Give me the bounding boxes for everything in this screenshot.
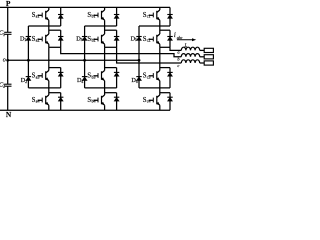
svg-text:3: 3 <box>81 37 83 42</box>
wire C1 to node o <box>7 34 9 84</box>
wire clamp branch leg c <box>138 26 140 88</box>
svg-text:abc: abc <box>177 36 183 40</box>
wire phase b jog from leg b <box>117 47 182 63</box>
svg-text:c2: c2 <box>147 38 151 43</box>
wire J4 to Sb4 with J5 tap <box>105 88 117 95</box>
junction dot o at DC link <box>6 59 9 62</box>
label phase b <box>177 56 180 61</box>
svg-text:c1: c1 <box>147 14 151 19</box>
transistor Sb2 <box>93 34 104 44</box>
neutral bus o wire <box>8 59 139 61</box>
wire Sa3 emitter to junction J4 <box>48 81 50 88</box>
wire Sc2 emitter to phase node <box>160 44 170 47</box>
transistor Sa3 <box>38 71 49 81</box>
diode antiparallel Sa4 <box>58 97 63 101</box>
label phase a <box>177 50 180 55</box>
diode antiparallel Sa1 <box>58 15 63 19</box>
svg-text:i: i <box>174 32 176 39</box>
wire leg c mid section <box>159 47 161 70</box>
wire diode branch row2 leg a <box>60 30 62 47</box>
transistor Sc3 <box>149 71 160 81</box>
node P label <box>6 0 11 8</box>
wire junction upper clamp row (J1a) <box>85 25 117 27</box>
diode clamp D1 <box>26 37 31 41</box>
label Sb1 <box>87 12 95 19</box>
label Sa3 <box>32 73 40 80</box>
wire Sb4 emitter to N bus <box>104 105 106 110</box>
transistor Sc2 <box>149 34 160 44</box>
current label i_abc <box>174 32 183 40</box>
svg-text:b1: b1 <box>91 14 95 19</box>
node N label <box>6 110 12 119</box>
label Sc3 <box>143 73 151 80</box>
svg-text:a3: a3 <box>36 75 40 80</box>
label Sb3 <box>87 73 95 80</box>
diode antiparallel Sc4 <box>167 97 172 101</box>
diode antiparallel Sb2 <box>114 37 119 41</box>
diode clamp D3 <box>82 37 87 41</box>
junction dot o-bus clamp c <box>138 59 141 62</box>
wire junction J3 to diode branch <box>105 67 117 69</box>
transistor Sa2 <box>38 34 49 44</box>
wire diode branch row3 leg b <box>116 68 118 88</box>
wire Sa4 emitter to N bus <box>48 105 50 110</box>
svg-text:N: N <box>6 110 12 119</box>
wire diode branch row3 leg c <box>169 68 171 88</box>
diode antiparallel Sc1 <box>167 15 172 19</box>
transistor Sa4 <box>38 95 49 105</box>
wire diode branch row2 leg c <box>169 30 171 47</box>
wire clamp branch leg a <box>27 26 29 88</box>
wire leg a mid section <box>48 47 50 70</box>
label Sc1 <box>143 12 151 19</box>
diode antiparallel Sb3 <box>114 72 119 76</box>
wire J4 to Sc4 with J5 tap <box>160 88 170 95</box>
label D4 <box>77 77 83 84</box>
wire phase c jog from leg c <box>170 47 181 50</box>
label Sa4 <box>32 97 40 104</box>
wire leg b mid section <box>104 47 106 70</box>
wire leg a collector stub Sa1 <box>48 7 50 10</box>
transistor Sa1 <box>38 10 49 20</box>
svg-text:2: 2 <box>25 79 27 84</box>
wire diode branch row1 leg b <box>116 7 118 26</box>
label Sa1 <box>32 12 40 19</box>
wire diode branch row3 leg a <box>60 68 62 88</box>
wire junction to Sc2 (J1b tap) <box>160 26 170 34</box>
wire Sb2 emitter to phase node <box>105 44 117 47</box>
svg-text:b3: b3 <box>91 75 95 80</box>
wire C2 to N bus <box>7 86 9 110</box>
transistor Sb3 <box>93 71 104 81</box>
diode antiparallel Sa2 <box>58 37 63 41</box>
wire Sc3 emitter to junction J4 <box>159 81 161 88</box>
junction dot o-bus clamp a <box>27 59 30 62</box>
diode clamp D6 <box>136 77 141 81</box>
grid terminal box bottom <box>204 61 213 65</box>
wire junction lower clamp row (J4) <box>139 87 170 89</box>
N bus (negative DC rail) <box>0 109 170 111</box>
svg-text:c4: c4 <box>147 99 151 104</box>
P bus (positive DC rail) <box>0 6 170 8</box>
svg-text:1: 1 <box>3 32 5 37</box>
diode clamp D4 <box>82 77 87 81</box>
transistor Sb4 <box>93 95 104 105</box>
svg-text:a2: a2 <box>36 38 40 43</box>
label Sc2 <box>143 36 151 43</box>
wire junction J3 to diode branch <box>160 67 170 69</box>
capacitor C1 <box>0 30 11 37</box>
wire diode branch row4 leg c <box>169 93 171 111</box>
grid terminal box top <box>204 48 213 52</box>
diode antiparallel Sc2 <box>167 37 172 41</box>
current arrow i_abc <box>177 38 196 41</box>
inductor phase c (top row) <box>181 47 204 50</box>
svg-text:c: c <box>177 63 179 68</box>
wire Sc1 emitter to junction <box>159 20 161 26</box>
label Sb4 <box>87 97 95 104</box>
wire clamp branch leg b <box>84 26 86 88</box>
label D5 <box>131 35 137 42</box>
wire diode branch row1 leg a <box>60 7 62 26</box>
wire diode branch row4 leg a <box>60 93 62 111</box>
wire junction upper clamp row (J1a) <box>28 25 60 27</box>
diode clamp D5 <box>136 37 141 41</box>
diode antiparallel Sb1 <box>114 15 119 19</box>
wire phase a jog from leg a <box>61 47 182 57</box>
label Sb2 <box>87 36 95 43</box>
node o label <box>3 58 6 64</box>
svg-text:1: 1 <box>24 37 26 42</box>
wire Sb1 emitter to junction <box>104 20 106 26</box>
diode antiparallel Sa3 <box>58 72 63 76</box>
diode antiparallel Sb4 <box>114 97 119 101</box>
svg-text:6: 6 <box>136 79 138 84</box>
diode clamp D2 <box>26 77 31 81</box>
wire Sa2 emitter to phase node <box>49 44 61 47</box>
svg-text:b2: b2 <box>91 38 95 43</box>
svg-text:c3: c3 <box>147 75 151 80</box>
svg-text:P: P <box>6 0 11 8</box>
svg-text:2: 2 <box>3 84 5 89</box>
transistor Sc4 <box>149 95 160 105</box>
wire diode branch row1 leg c <box>169 7 171 26</box>
wire junction lower clamp row (J4) <box>28 87 60 89</box>
grid terminal box middle <box>204 55 213 59</box>
svg-text:a1: a1 <box>36 14 40 19</box>
wire junction to Sb2 (J1b tap) <box>105 26 117 34</box>
wire Sb3 emitter to junction J4 <box>104 81 106 88</box>
wire leg b collector stub Sb1 <box>104 7 106 10</box>
wire junction upper clamp row (J1a) <box>139 25 170 27</box>
label L <box>184 44 188 49</box>
label D6 <box>131 77 137 84</box>
svg-text:5: 5 <box>135 37 137 42</box>
wire junction to Sa2 (J1b tap) <box>49 26 61 34</box>
wire diode branch row4 leg b <box>116 93 118 111</box>
junction dot o-bus clamp b <box>83 59 86 62</box>
wire junction lower clamp row (J4) <box>85 87 117 89</box>
svg-text:b4: b4 <box>91 99 95 104</box>
capacitor C2 <box>0 82 11 89</box>
wire Sa1 emitter to junction <box>48 20 50 26</box>
transistor Sb1 <box>93 10 104 20</box>
label D3 <box>76 35 82 42</box>
wire junction J3 to diode branch <box>49 67 61 69</box>
inductor phase b (bottom row) <box>181 60 204 63</box>
wire DC link vertical (P to C1) <box>7 7 9 32</box>
wire diode branch row2 leg b <box>116 30 118 47</box>
svg-text:4: 4 <box>81 79 83 84</box>
label D1 <box>20 35 26 42</box>
svg-text:o: o <box>3 58 6 64</box>
label Sa2 <box>32 36 40 43</box>
label Sc4 <box>143 97 151 104</box>
wire J4 to Sa4 with J5 tap <box>49 88 61 95</box>
label phase c <box>177 63 179 68</box>
inductor phase a (middle row) <box>181 54 204 57</box>
label D2 <box>21 77 27 84</box>
transistor Sc1 <box>149 10 160 20</box>
wire leg c collector stub Sc1 <box>159 7 161 10</box>
svg-text:a4: a4 <box>36 99 40 104</box>
wire Sc4 emitter to N bus <box>159 105 161 110</box>
diode antiparallel Sc3 <box>167 72 172 76</box>
